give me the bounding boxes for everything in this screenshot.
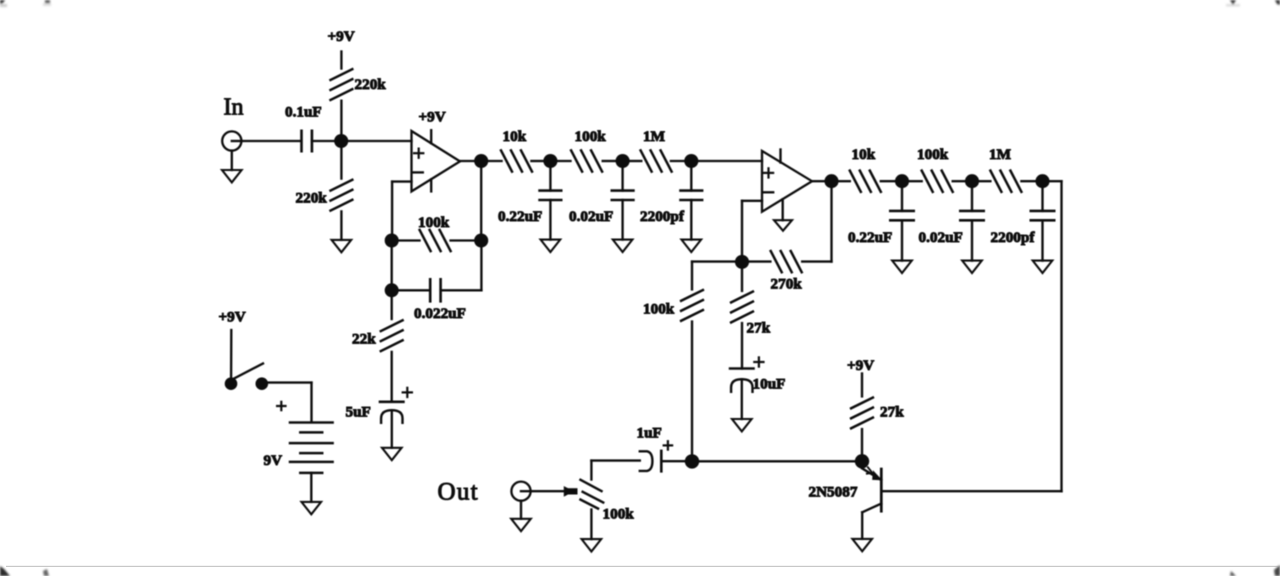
wire C1 to node A xyxy=(312,140,412,142)
node N junction xyxy=(965,174,979,188)
potentiometer 100k VR1 xyxy=(581,461,635,539)
svg-text:220k: 220k xyxy=(296,190,328,207)
svg-text:2200pf: 2200pf xyxy=(991,229,1036,246)
svg-text:5uF: 5uF xyxy=(346,404,371,421)
scan line bottom edge xyxy=(6,566,1280,567)
resistor 10k R5 xyxy=(501,128,532,172)
wire +9V to switch xyxy=(230,330,233,378)
wire In to C1 xyxy=(241,140,301,142)
wire R5 to node F xyxy=(531,160,543,162)
wire node J left to node K xyxy=(692,260,735,262)
svg-text:27k: 27k xyxy=(880,404,904,421)
output jack J2 xyxy=(511,482,530,501)
svg-text:0.02uF: 0.02uF xyxy=(919,229,963,246)
node G junction xyxy=(616,154,630,168)
wire node I down to R8 xyxy=(802,188,831,262)
wire R12 to node N xyxy=(953,180,965,182)
wire C2 up to node D xyxy=(441,247,482,290)
ground below 0.22uF right xyxy=(892,261,912,273)
wire pot top to 1uF xyxy=(591,459,639,461)
label Out xyxy=(438,479,479,506)
ground below 0.02uF xyxy=(613,240,633,252)
wire node M to R12 xyxy=(909,180,922,182)
svg-text:270k: 270k xyxy=(771,276,803,293)
scan mark bottom-right xyxy=(1230,565,1280,576)
node M junction xyxy=(895,174,909,188)
capacitor 10uF electrolytic xyxy=(730,357,785,392)
svg-text:1M: 1M xyxy=(989,146,1011,163)
node I junction at U2 output xyxy=(824,174,838,188)
svg-text:0.022uF: 0.022uF xyxy=(414,305,466,322)
svg-text:22k: 22k xyxy=(352,331,376,348)
capacitor 0.1uF xyxy=(285,104,322,152)
resistor 220k pull-up R1 xyxy=(331,69,387,100)
svg-text:Out: Out xyxy=(438,479,479,506)
label In xyxy=(224,95,244,121)
ground below 10uF xyxy=(732,419,752,431)
ground below op-amp U2 xyxy=(774,220,792,231)
capacitor 0.22uF shunt xyxy=(498,168,561,240)
node H junction xyxy=(684,154,698,168)
wire node H to op-amp U2 xyxy=(698,160,762,162)
wire U2 output xyxy=(812,180,825,182)
capacitor 0.02uF shunt right xyxy=(919,188,984,261)
resistor 100k R6 xyxy=(571,128,606,172)
capacitor 1uF electrolytic xyxy=(637,425,673,472)
wire 10uF to ground xyxy=(741,379,743,419)
resistor 1M R13 xyxy=(989,146,1021,192)
capacitor 0.022uF feedback xyxy=(414,279,466,322)
wire node N to R13 xyxy=(979,180,991,182)
resistor 27k R10 xyxy=(731,292,771,337)
wire R4 to C3 xyxy=(391,352,393,402)
wire node C down to node E xyxy=(391,247,393,283)
label +9V top rail xyxy=(328,28,355,45)
wire R10 to C7 xyxy=(741,323,743,368)
wire +9V to R1 xyxy=(340,52,342,69)
wire R13 to node O xyxy=(1021,180,1035,182)
battery 9V BT1 xyxy=(264,423,333,473)
wire R6 to node G xyxy=(603,160,616,162)
svg-text:1M: 1M xyxy=(643,128,665,145)
switch SW1 xyxy=(225,364,268,391)
svg-text:2200pf: 2200pf xyxy=(640,208,685,225)
node B junction at U1 output xyxy=(474,154,488,168)
svg-text:100k: 100k xyxy=(418,214,450,231)
resistor 270k feedback R8 xyxy=(771,251,803,293)
node F junction xyxy=(543,154,557,168)
ground below Q1 collector xyxy=(852,539,872,551)
op-amp U1 xyxy=(412,130,461,191)
capacitor 0.02uF shunt xyxy=(569,168,633,240)
label + battery xyxy=(277,402,285,410)
svg-text:10k: 10k xyxy=(852,146,876,163)
ground below 2200pf xyxy=(682,240,702,252)
node D junction xyxy=(474,233,488,247)
svg-text:2N5087: 2N5087 xyxy=(809,484,858,501)
svg-text:100k: 100k xyxy=(575,128,607,145)
wire node C to R3 xyxy=(398,239,419,241)
wire node E to R4 xyxy=(391,297,393,319)
label +9V op-amp U1 xyxy=(419,109,446,126)
wire node I to R11 xyxy=(838,180,850,182)
node E junction xyxy=(385,283,399,297)
wire C3 to ground xyxy=(391,410,393,448)
op-amp U2 xyxy=(762,150,812,221)
node L junction xyxy=(685,454,699,468)
wire node B to R5 xyxy=(488,160,502,162)
svg-text:+9V: +9V xyxy=(328,28,355,45)
wire R7 to node H xyxy=(671,160,685,162)
wire node B down xyxy=(480,168,482,234)
svg-text:100k: 100k xyxy=(643,301,675,318)
wire node J down to R10 xyxy=(741,269,743,291)
svg-text:220k: 220k xyxy=(355,76,387,93)
label +9V transistor xyxy=(847,357,874,374)
wire battery to ground xyxy=(310,473,312,502)
wire R2 to ground xyxy=(340,211,342,240)
resistor 220k pull-down R2 xyxy=(296,180,353,211)
wire Out to pot wiper xyxy=(531,490,566,492)
wire node O feedback to Q1 base xyxy=(881,181,1061,491)
ground below 2200pf right xyxy=(1033,261,1053,273)
wire node A to R2 xyxy=(340,141,342,179)
wire node F to R6 xyxy=(557,160,570,162)
wire R1 to node A xyxy=(340,101,342,141)
input jack J1 xyxy=(222,131,241,150)
node C junction xyxy=(385,233,399,247)
wire inverting input U1 xyxy=(392,182,411,234)
resistor 22k R4 xyxy=(352,320,403,351)
ground below 0.02uF right xyxy=(962,261,982,273)
node J junction xyxy=(735,255,749,269)
ground below pot xyxy=(582,539,602,551)
node O junction xyxy=(1035,174,1049,188)
svg-text:In: In xyxy=(224,95,244,121)
capacitor 0.22uF shunt right xyxy=(848,188,914,261)
wire +9V to R14 xyxy=(861,374,863,397)
pot wiper arrow xyxy=(565,487,578,495)
scan mark bottom-left xyxy=(0,566,49,576)
capacitor 5uF electrolytic xyxy=(346,388,412,423)
node A junction xyxy=(334,134,348,148)
resistor 100k feedback R3 xyxy=(418,214,451,251)
wire R9 down to node L xyxy=(691,322,693,455)
ground below R2 xyxy=(332,240,352,252)
svg-text:27k: 27k xyxy=(747,320,771,337)
resistor 100k R12 xyxy=(917,146,953,192)
ground below 0.22uF xyxy=(541,240,561,252)
wire node K down to R9 xyxy=(691,262,693,290)
wire node G to R7 xyxy=(629,160,641,162)
ground below battery xyxy=(302,502,322,514)
ground below 5uF xyxy=(382,448,402,460)
wire switch to battery xyxy=(267,383,312,422)
svg-text:0.1uF: 0.1uF xyxy=(285,104,322,121)
ground at input jack xyxy=(222,151,242,183)
wire U1 output xyxy=(460,160,475,162)
svg-text:10k: 10k xyxy=(503,128,527,145)
capacitor 2200pf shunt xyxy=(640,168,702,240)
capacitor 2200pf shunt right xyxy=(991,188,1055,261)
resistor 100k R9 vertical xyxy=(643,290,703,321)
wire 1uF to node L xyxy=(661,460,684,462)
svg-text:0.22uF: 0.22uF xyxy=(498,208,542,225)
wire R11 to node M xyxy=(881,180,895,182)
wire R8 to node J xyxy=(749,260,770,262)
resistor 1M R7 xyxy=(641,128,672,172)
svg-text:+9V: +9V xyxy=(847,357,874,374)
svg-text:0.02uF: 0.02uF xyxy=(569,208,613,225)
svg-text:+9V: +9V xyxy=(419,109,446,126)
transistor 2N5087 Q1 xyxy=(809,467,882,539)
wire inverting input U2 xyxy=(742,201,762,255)
label +9V switch xyxy=(219,309,246,326)
wire node L to node P xyxy=(699,460,855,462)
svg-text:9V: 9V xyxy=(264,452,283,469)
wire R3 to node D xyxy=(451,239,475,241)
wire node E to C2 xyxy=(398,289,430,291)
svg-text:1uF: 1uF xyxy=(637,425,662,442)
resistor 27k R14 xyxy=(851,398,904,429)
svg-text:10uF: 10uF xyxy=(753,376,786,393)
svg-text:100k: 100k xyxy=(917,146,949,163)
scan mark top-right xyxy=(1226,0,1280,7)
wire R14 to node P xyxy=(861,429,863,454)
svg-text:100k: 100k xyxy=(603,506,635,523)
node P junction xyxy=(855,454,869,468)
svg-text:+9V: +9V xyxy=(219,309,246,326)
scan mark top-left xyxy=(0,0,51,7)
svg-text:0.22uF: 0.22uF xyxy=(848,229,892,246)
resistor 10k R11 xyxy=(850,146,881,192)
ground at output jack xyxy=(511,501,531,531)
